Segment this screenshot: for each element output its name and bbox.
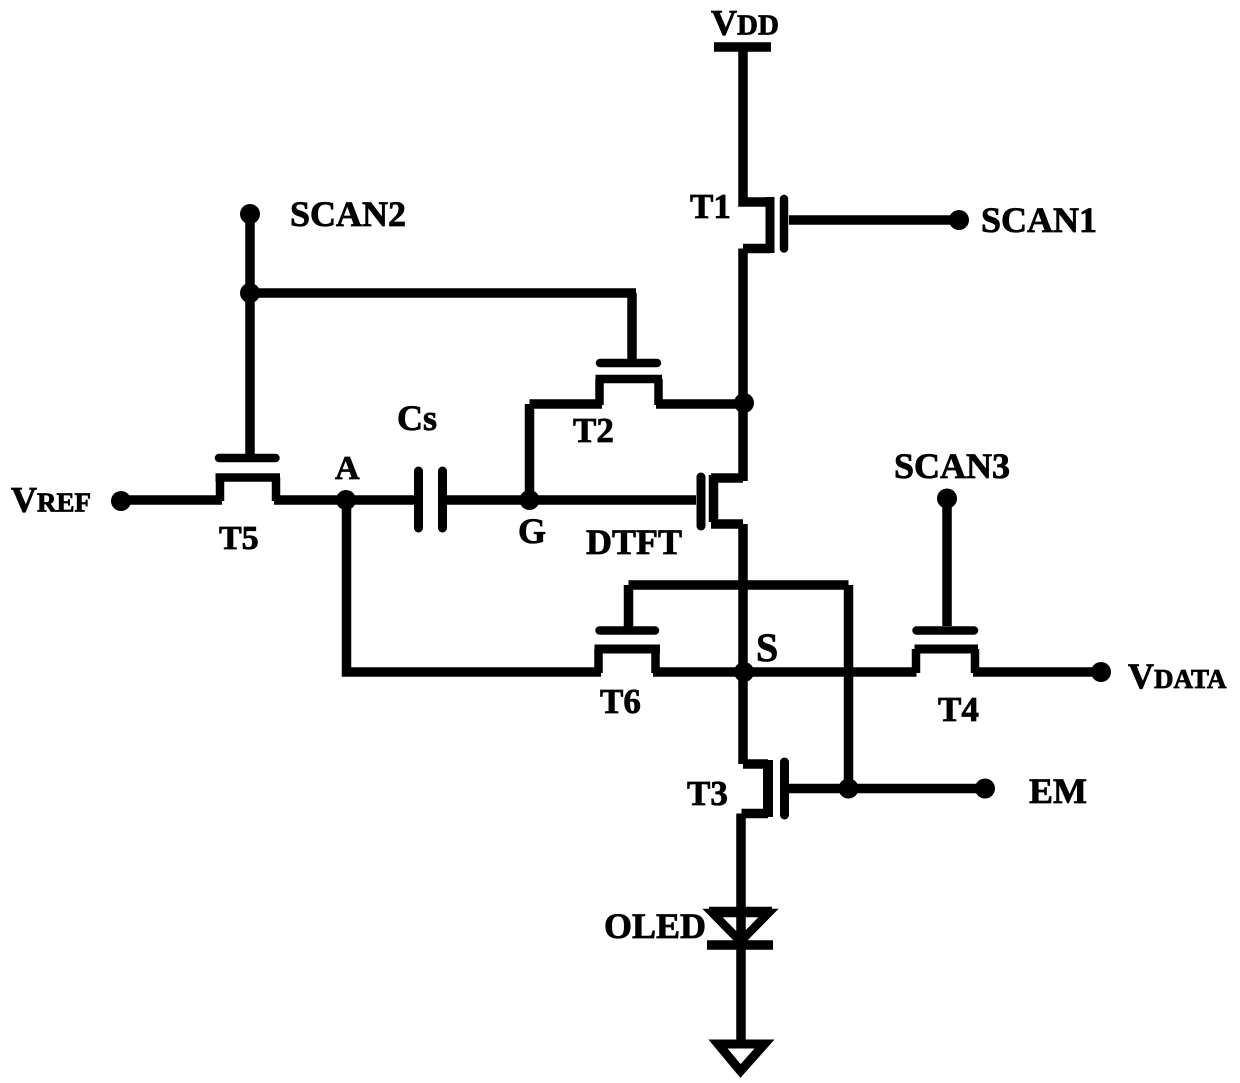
svg-text:Cs: Cs [397,398,437,438]
svg-text:S: S [756,625,778,670]
svg-text:OLED: OLED [604,906,706,946]
svg-text:EM: EM [1029,771,1087,811]
svg-text:DTFT: DTFT [586,522,682,562]
svg-text:SCAN2: SCAN2 [290,194,406,234]
svg-text:SCAN3: SCAN3 [894,446,1010,486]
svg-text:T1: T1 [690,187,731,226]
svg-text:T4: T4 [938,690,979,729]
svg-text:T6: T6 [600,682,641,721]
svg-text:T2: T2 [573,411,614,450]
svg-text:T3: T3 [687,774,728,813]
svg-text:SCAN1: SCAN1 [981,200,1097,240]
svg-text:A: A [335,450,360,487]
svg-text:T5: T5 [219,520,259,557]
svg-text:G: G [518,511,546,551]
